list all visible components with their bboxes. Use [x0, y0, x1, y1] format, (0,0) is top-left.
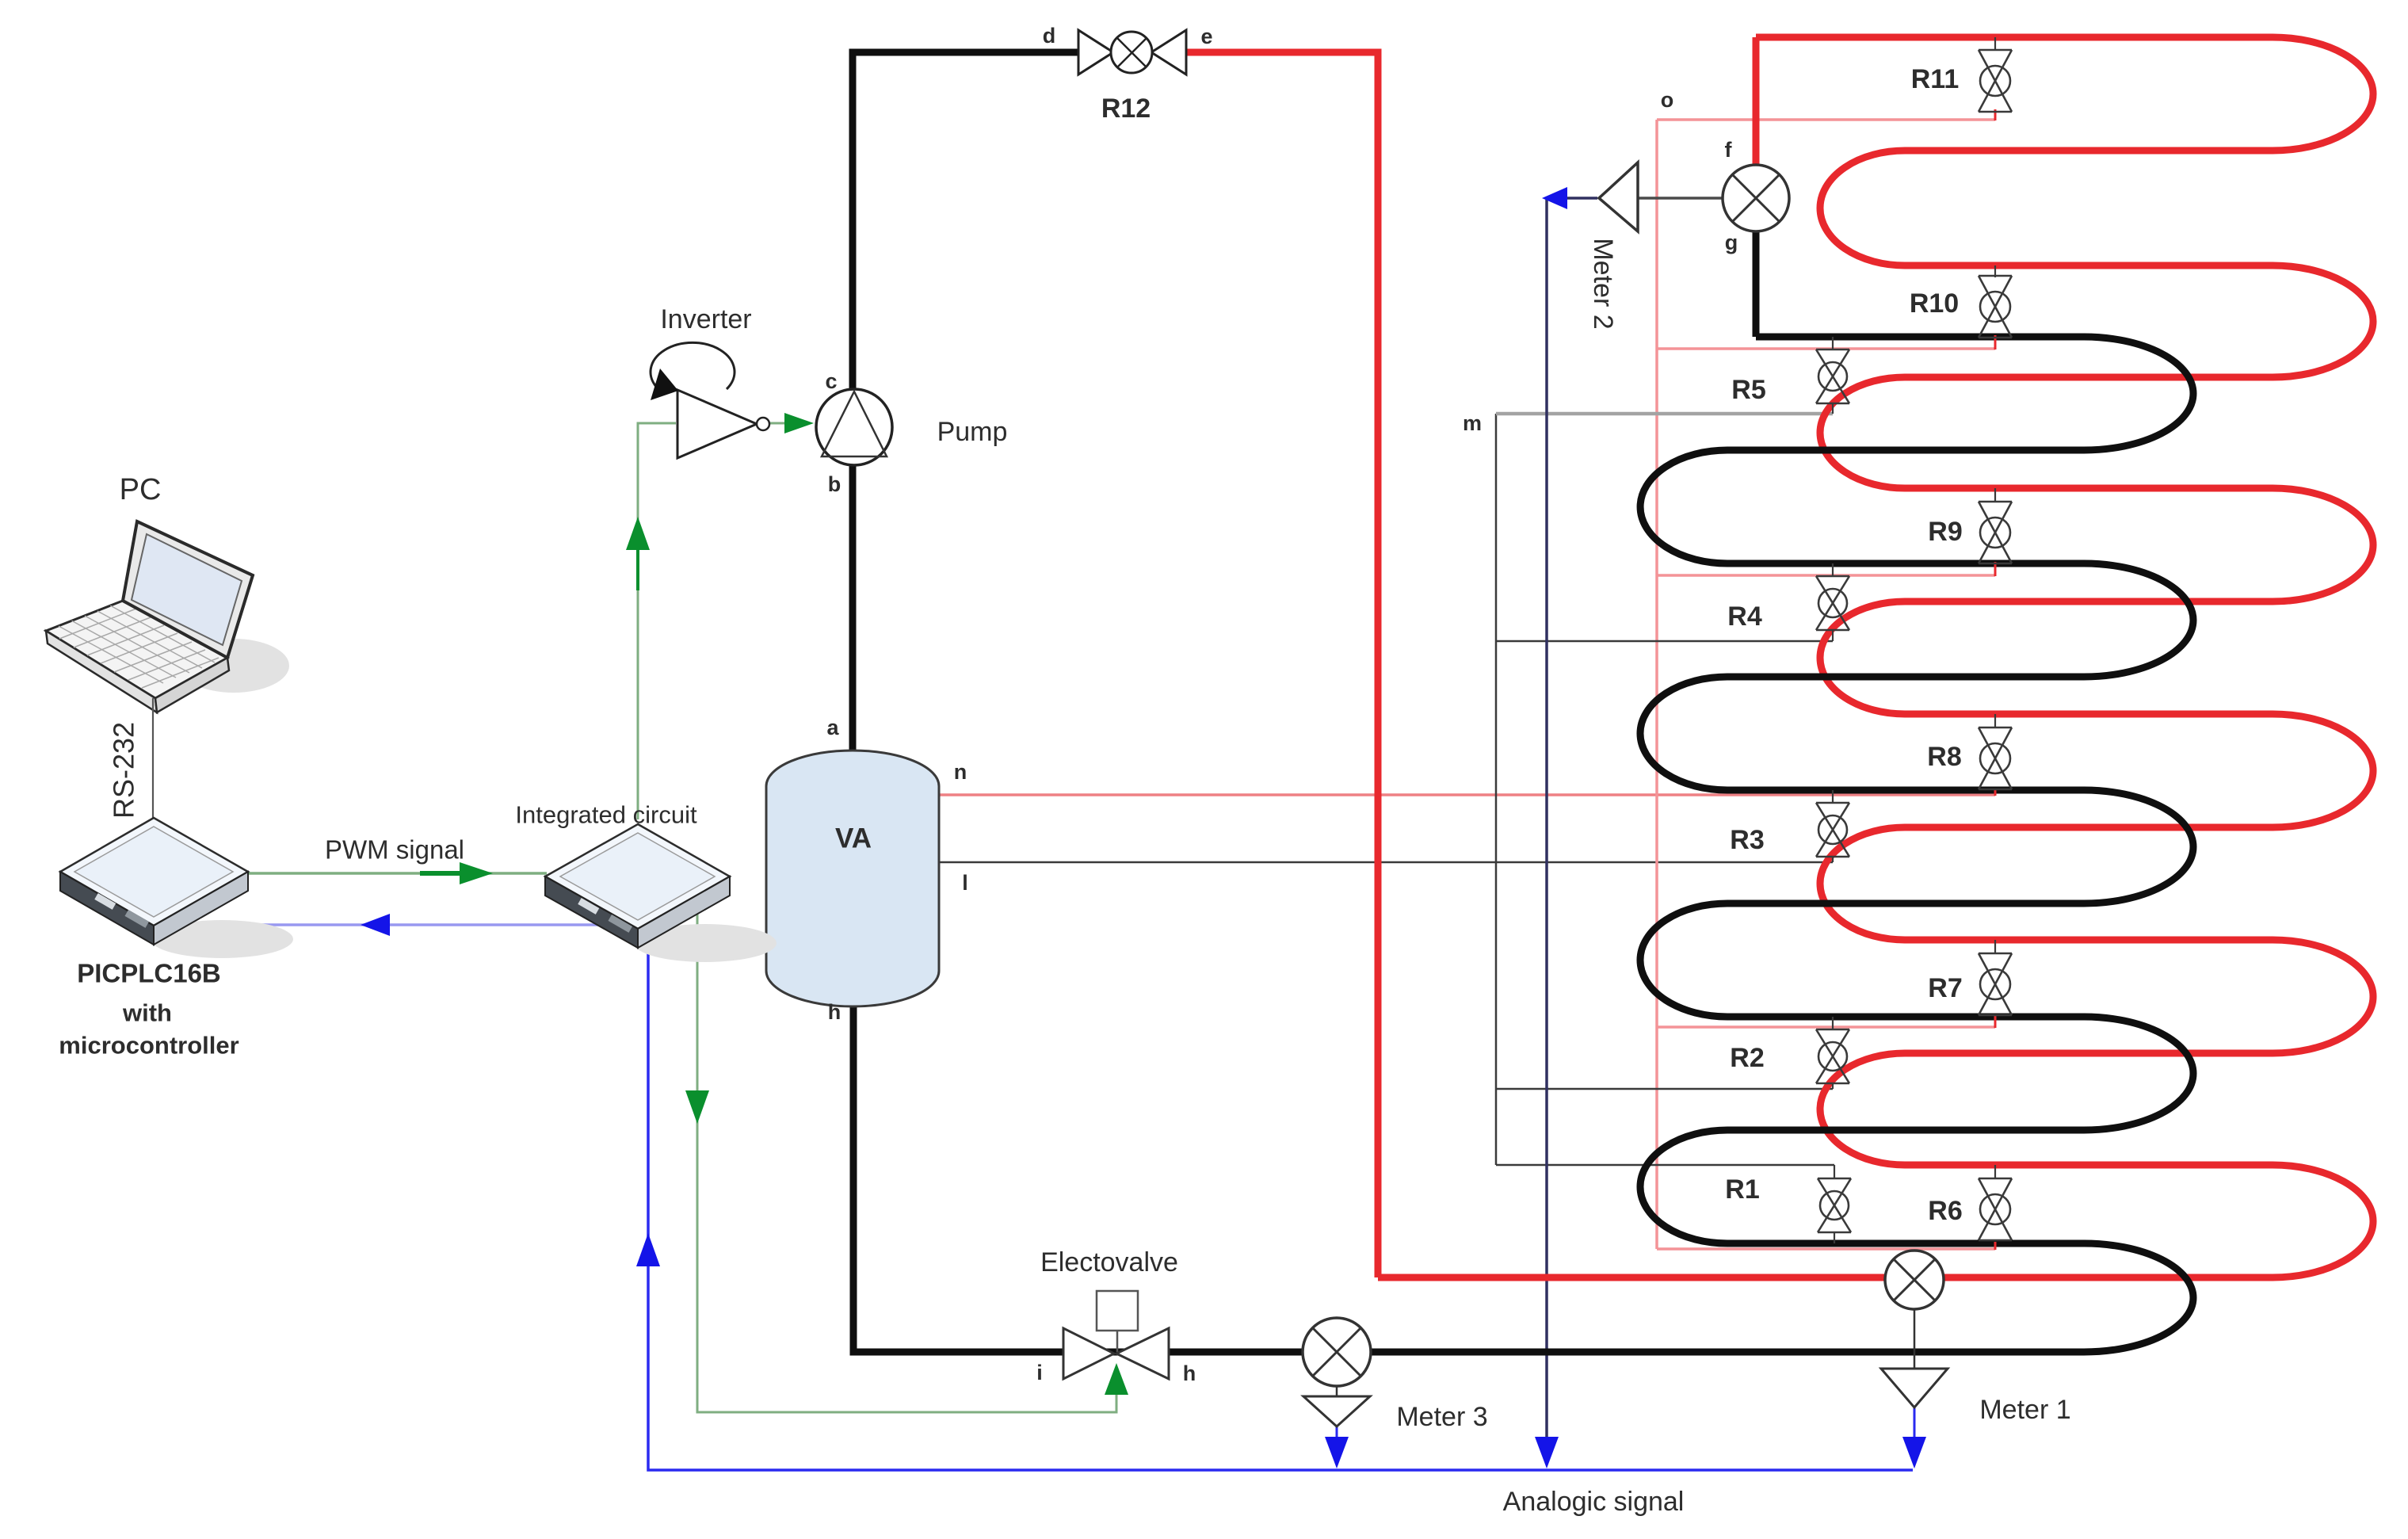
- wire: pink branch o to valve R9: [1657, 574, 1995, 577]
- valve R3: [1816, 790, 1849, 857]
- svg-text:c: c: [825, 369, 837, 393]
- wire: blue drop from Meter 1 to bus: [1914, 1407, 1916, 1458]
- wire: RS-232 link PC to PICPLC16B: [152, 698, 154, 818]
- wire: branch m to valve R1: [1496, 1164, 1834, 1167]
- wire: red pipe from valve R12 port e down to serpentine bottom row: [1186, 52, 1378, 1277]
- wire: thin black line l from tank VA to valve R3: [939, 861, 1833, 864]
- svg-text:f: f: [1725, 138, 1733, 162]
- valve R1: [1818, 1178, 1851, 1243]
- Meter 1 funnel: [1881, 1309, 1948, 1407]
- wire: navy signal line from Meter 2 down to analogic bus: [1545, 198, 1548, 1458]
- svg-text:RS-232: RS-232: [108, 722, 140, 819]
- wire: blue analogic signal bus from integrated circuit: [648, 923, 1913, 1470]
- inverter triangle: [677, 390, 769, 458]
- sensor valve f-g (cross circle): [1723, 165, 1789, 231]
- wire: gray branch m to valve R5: [1496, 412, 1833, 416]
- svg-text:R3: R3: [1730, 825, 1764, 855]
- wire: green line integrated circuit up to inverter: [638, 423, 676, 819]
- node m: black collector vertical: [1495, 414, 1498, 1165]
- wire: pink branch o to valve R11: [1657, 118, 1995, 121]
- svg-text:Integrated circuit: Integrated circuit: [515, 801, 697, 829]
- svg-text:R11: R11: [1911, 64, 1960, 94]
- valve R2: [1816, 1017, 1849, 1083]
- pump: [816, 389, 892, 465]
- svg-text:PC: PC: [120, 473, 162, 506]
- svg-text:Analogic signal: Analogic signal: [1503, 1487, 1685, 1517]
- svg-text:h: h: [1183, 1361, 1196, 1385]
- svg-text:R2: R2: [1730, 1043, 1764, 1073]
- integrated circuit box: [545, 824, 730, 948]
- PICPLC16B box: [60, 818, 248, 945]
- svg-text:b: b: [828, 472, 841, 496]
- svg-text:VA: VA: [835, 823, 872, 854]
- wire: green line integrated circuit down to electrovalve: [697, 897, 1116, 1412]
- wire: blue arrow down from Meter 2 line onto bus: [1535, 1437, 1559, 1468]
- wire: green arrow up into electrovalve: [1105, 1363, 1128, 1395]
- svg-text:PICPLC16B: PICPLC16B: [77, 959, 221, 988]
- wire: black riser from g valve down to black serpentine row 1: [1753, 230, 1760, 337]
- svg-text:m: m: [1463, 411, 1482, 435]
- svg-text:o: o: [1661, 88, 1674, 112]
- wire: green PWM line PICPLC16B to integrated circuit: [248, 872, 547, 875]
- valve R5: [1816, 337, 1849, 403]
- svg-text:Electovalve: Electovalve: [1040, 1247, 1178, 1277]
- wire: gray link Meter 2 to f valve: [1638, 197, 1724, 200]
- valve R11: [1979, 37, 2012, 112]
- valve R8: [1979, 714, 2012, 789]
- svg-text:Meter 3: Meter 3: [1396, 1402, 1487, 1432]
- svg-text:with: with: [122, 999, 172, 1027]
- svg-text:d: d: [1043, 24, 1056, 48]
- electrovalve body: [1063, 1291, 1169, 1379]
- svg-text:e: e: [1200, 25, 1212, 48]
- valve stubs to collector lines: [1833, 109, 1995, 1250]
- valve R12 with ports d and e: [1078, 30, 1186, 74]
- laptop PC: [46, 521, 253, 712]
- valve R9: [1979, 488, 2012, 563]
- wire: black return serpentine rows and bottom return to electrovalve and tank h: [853, 337, 2193, 1352]
- wire: red supply serpentine rows 1-12: [1378, 37, 2373, 1277]
- svg-text:h: h: [828, 1000, 841, 1024]
- wire: pink branch o to valve R7: [1657, 1025, 1995, 1029]
- valve R10: [1979, 265, 2012, 338]
- svg-text:Meter 1: Meter 1: [1979, 1395, 2070, 1425]
- svg-text:R6: R6: [1928, 1196, 1962, 1226]
- wire: pink branch o to valve R6: [1657, 1247, 1995, 1251]
- laptop PC shadow: [178, 639, 289, 693]
- valve R4: [1816, 563, 1849, 630]
- svg-text:R12: R12: [1101, 94, 1151, 124]
- integrated circuit box shadow: [634, 924, 777, 962]
- svg-text:microcontroller: microcontroller: [59, 1032, 239, 1060]
- svg-text:R8: R8: [1927, 742, 1961, 772]
- valve R7: [1979, 940, 2012, 1015]
- svg-text:R9: R9: [1928, 517, 1962, 547]
- inverter rotation arc arrow: [651, 342, 735, 400]
- wire: green line inverter to pump: [770, 422, 792, 425]
- wire: blue arrow up on integrated circuit drop: [636, 1233, 660, 1266]
- svg-text:R1: R1: [1725, 1174, 1759, 1205]
- valve R6: [1979, 1165, 2012, 1240]
- wire: red riser from f valve up to serpentine row 1: [1753, 37, 1760, 166]
- PICPLC16B box shadow: [151, 920, 293, 958]
- Meter 3 funnel: [1303, 1386, 1370, 1426]
- svg-text:Pump: Pump: [937, 417, 1008, 447]
- wire: blue return line integrated circuit to PICPLC16B: [261, 923, 635, 926]
- wire: pink branch o to valve R10: [1657, 347, 1995, 350]
- svg-text:i: i: [1036, 1361, 1043, 1384]
- Meter 1 sensor cross circle: [1885, 1251, 1944, 1309]
- svg-text:R10: R10: [1910, 288, 1959, 319]
- svg-text:PWM signal: PWM signal: [325, 835, 464, 865]
- wire: branch m to valve R4: [1496, 640, 1833, 643]
- svg-text:Meter 2: Meter 2: [1588, 238, 1618, 329]
- svg-text:a: a: [826, 716, 839, 739]
- wire: black pipe pump column a-b-c-d: [853, 52, 1078, 750]
- svg-text:g: g: [1725, 231, 1738, 254]
- svg-text:R4: R4: [1727, 601, 1762, 632]
- wire: thin red line n from tank VA to valve R8: [939, 793, 1995, 796]
- svg-text:n: n: [954, 760, 967, 784]
- wire: blue arrow at Meter 2 junction: [1564, 197, 1597, 200]
- Meter 2 funnel: [1599, 162, 1638, 231]
- svg-text:R7: R7: [1928, 973, 1962, 1003]
- wire: blue drop from Meter 3 to bus: [1336, 1426, 1338, 1458]
- wire: branch m to valve R2: [1496, 1088, 1833, 1090]
- svg-text:Inverter: Inverter: [660, 304, 751, 334]
- Meter 3 sensor cross circle: [1303, 1318, 1371, 1386]
- node o: pink collector vertical: [1655, 120, 1658, 1249]
- tank VA: [766, 750, 939, 1006]
- svg-text:R5: R5: [1731, 375, 1765, 405]
- svg-text:l: l: [962, 871, 968, 895]
